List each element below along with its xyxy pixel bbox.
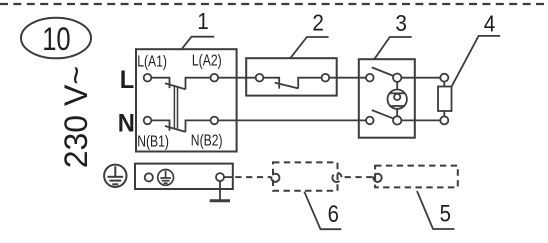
label 1 leader [182, 37, 215, 50]
svg-text:N: N [118, 110, 135, 138]
earth terminal [216, 173, 224, 181]
lamp cathode dot [394, 94, 400, 100]
terminal (box 2 right) [322, 74, 330, 82]
terminal (box 3 top-right) [393, 74, 401, 82]
wire N: box1 to box3 [218, 119, 366, 121]
dashed accessory box 6 [273, 162, 338, 190]
label 4 leader [452, 36, 501, 86]
label 3 leader [374, 37, 411, 59]
dashed wire: plug 6 to plug 5 [345, 176, 373, 178]
terminal L(A2) [211, 74, 219, 82]
dashed accessory box 5 [375, 166, 458, 188]
protective earth symbol (standalone) [104, 165, 126, 187]
connector hook (box 5 left) [373, 174, 381, 182]
switch box 2 outline [246, 58, 337, 95]
earth terminal block outline [135, 164, 233, 189]
svg-text:2: 2 [312, 9, 324, 35]
label 2 leader [290, 37, 328, 58]
terminal (box 3 bottom-right) [393, 116, 401, 124]
contact pole N (box 1 bottom) [151, 120, 210, 131]
diagram number badge oval 10 [21, 18, 91, 59]
wire N: box3 to resistor [401, 119, 440, 121]
wire L: box1 to box2 [218, 77, 256, 79]
protective earth symbol (in block) [158, 170, 174, 186]
label 5 leader [417, 191, 455, 229]
svg-text:230 V~: 230 V~ [58, 66, 94, 168]
svg-text:10: 10 [42, 22, 70, 57]
terminal N(B1) [144, 117, 152, 125]
svg-text:N(B2): N(B2) [191, 132, 223, 150]
svg-text:5: 5 [440, 200, 451, 227]
svg-text:6: 6 [328, 200, 339, 227]
svg-text:4: 4 [484, 11, 496, 37]
wire terminal to block edge [224, 176, 233, 178]
terminal (box 2 left) [256, 74, 264, 82]
terminal (box 3 bottom-left) [366, 117, 374, 125]
switch blade (box 3 top, open) [372, 67, 394, 76]
resistor terminal bottom [440, 116, 448, 124]
connector hook (box 6 right) [337, 173, 341, 177]
terminal (box 3 top-left) [366, 74, 374, 82]
terminal N(B2) [211, 117, 219, 125]
top dashed border line [0, 3, 548, 5]
contact pole L (box 1 top) [151, 78, 210, 90]
indicator lamp (neon) outline [388, 90, 407, 109]
lamp top electrode [390, 92, 405, 94]
terminal hole [145, 173, 153, 181]
switch blade (box 3 bottom, open) [372, 110, 394, 119]
resistor terminal top [440, 74, 448, 82]
svg-text:1: 1 [197, 8, 209, 34]
switch box 3 outline [359, 59, 415, 138]
resistor lead top [443, 82, 445, 87]
wire lamp feed (top) [396, 82, 398, 90]
thermostat switch contact (box 2) [263, 78, 321, 89]
terminal L(A1) [144, 74, 152, 82]
label 6 leader [304, 192, 341, 230]
dashed wire: block to plug 6 [235, 176, 270, 178]
wire lamp to bottom terminal [396, 109, 398, 116]
connector hook (box 6 left) [271, 174, 279, 182]
lamp bottom electrode [390, 105, 405, 107]
ground bar [210, 199, 230, 202]
resistor body R (component 4) [438, 87, 452, 112]
svg-text:L(A2): L(A2) [192, 52, 222, 70]
mechanical link (double line) [174, 86, 177, 129]
wire L: box3 to resistor [401, 77, 440, 79]
svg-text:L(A1): L(A1) [137, 53, 167, 71]
svg-text:3: 3 [395, 10, 407, 36]
relay/switch box 1 outline [136, 49, 237, 151]
svg-text:L: L [120, 67, 135, 95]
resistor lead bottom [443, 111, 445, 116]
wire L: box2 to box3 [329, 77, 366, 79]
ground stem [219, 181, 221, 200]
svg-text:N(B1): N(B1) [137, 133, 169, 151]
